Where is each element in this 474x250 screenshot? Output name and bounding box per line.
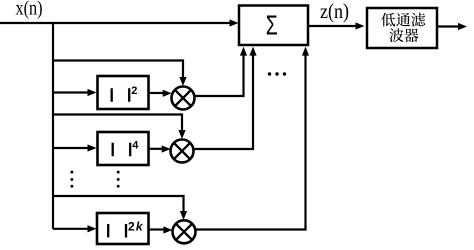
wire: summer output z(n) to filter	[308, 25, 357, 27]
wire: row3 direct branch down into multiplier M3 top	[53, 196, 184, 213]
wire: M2 output up to summer	[193, 53, 253, 149]
summer box	[239, 6, 308, 46]
block |.|^2 squarer 1	[98, 76, 149, 109]
multiplier M2	[171, 140, 194, 163]
wire: row2 direct branch down into multiplier M2 top	[53, 115, 182, 133]
vertical ellipsis middle	[117, 171, 120, 174]
wire: squarer1 output to M1	[149, 92, 164, 94]
wire: row1 direct branch down into multiplier M1 top	[53, 61, 183, 80]
ellipsis between summer inputs	[268, 72, 271, 75]
svg-text:4: 4	[132, 140, 139, 152]
svg-text:2k: 2k	[128, 219, 144, 233]
multiplier M1	[172, 87, 195, 110]
wire: input trunk vertical	[52, 22, 54, 229]
vertical ellipsis left	[70, 171, 73, 174]
wire: M3 output up to summer	[196, 53, 306, 230]
wire: main input to summer	[0, 22, 231, 24]
wire: row2 branch into squarer box 2	[53, 147, 89, 149]
wire: M1 output up to summer	[194, 53, 244, 96]
svg-text:z(n): z(n)	[320, 0, 349, 23]
svg-text:2: 2	[131, 85, 137, 97]
wire: row1 branch into squarer box 1	[53, 91, 89, 93]
wire: squarer2 output to M2	[149, 148, 164, 150]
multiplier M3	[173, 220, 196, 243]
arrowhead into summer left	[230, 19, 239, 26]
svg-text:Σ: Σ	[266, 10, 278, 41]
block |.|^2k squarer 3	[97, 213, 149, 244]
block low-pass filter	[367, 8, 437, 48]
label low-pass filter (CJK)	[381, 13, 425, 43]
svg-text:x(n): x(n)	[16, 0, 43, 20]
block |.|^4 squarer 2	[98, 132, 149, 165]
wire: filter output	[437, 25, 459, 27]
wire: squarer3 output to M3	[149, 228, 165, 230]
wire: row3 branch into squarer box 3	[53, 228, 89, 230]
